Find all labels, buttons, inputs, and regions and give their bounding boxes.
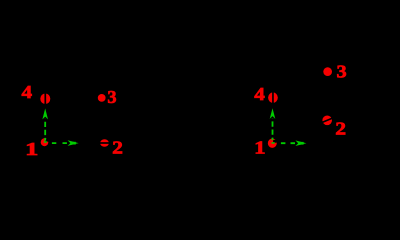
svg-text:4: 4 — [254, 84, 265, 104]
green corner marks inside atom 1 (left cell) — [44, 141, 47, 143]
atom 1 (right cell) — [268, 139, 277, 148]
green corner marks inside atom 1 (right cell) — [272, 142, 275, 144]
vertical basis vector arrow (right cell) — [270, 108, 276, 140]
atom 4 (right cell) — [268, 92, 278, 103]
atom 1 (left cell) — [41, 138, 49, 146]
atom 4 (left cell) — [40, 93, 50, 105]
svg-text:1: 1 — [254, 137, 266, 157]
svg-text:3: 3 — [337, 62, 347, 82]
horizontal basis vector arrow (left cell) — [52, 140, 79, 146]
atom 3 (right cell) — [323, 67, 332, 76]
svg-text:2: 2 — [335, 119, 346, 139]
atom 3 (left cell) — [98, 94, 106, 102]
svg-text:4: 4 — [22, 82, 33, 102]
vertical basis vector arrow (left cell) — [42, 108, 48, 140]
svg-text:3: 3 — [107, 87, 116, 107]
atom 2 (left cell) — [100, 139, 110, 147]
horizontal basis vector arrow (right cell) — [281, 140, 307, 146]
atom 2 (right cell) — [322, 116, 333, 126]
svg-text:1: 1 — [25, 139, 38, 159]
svg-text:2: 2 — [112, 138, 123, 158]
